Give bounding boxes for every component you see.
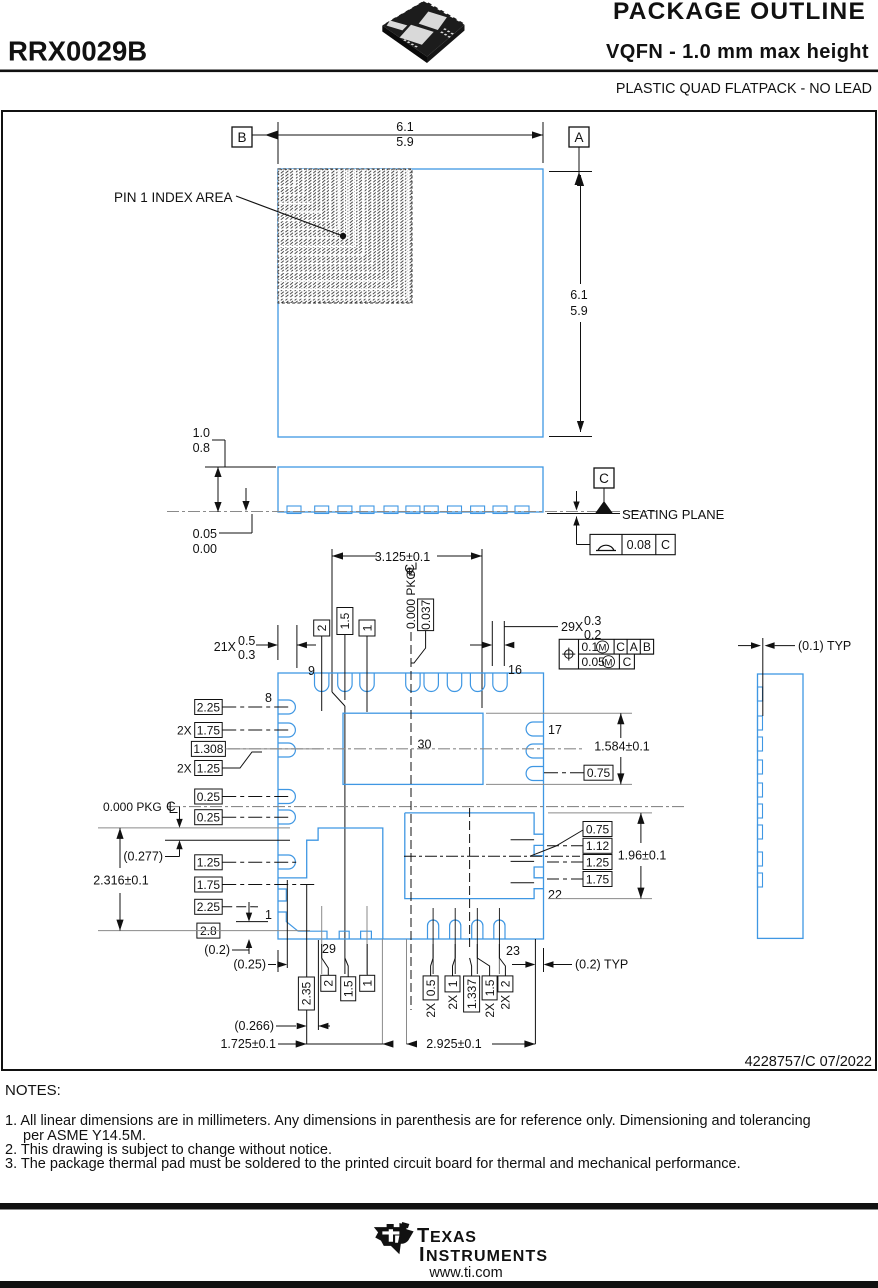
svg-text:1.25: 1.25 bbox=[586, 855, 610, 869]
header horizontal rule bbox=[0, 70, 878, 73]
svg-text:6.1: 6.1 bbox=[570, 288, 587, 302]
side view centerline bbox=[167, 511, 657, 513]
left box leader lines bbox=[222, 706, 290, 708]
datum C label and seating plane bbox=[594, 468, 614, 488]
svg-text:2X: 2X bbox=[177, 723, 192, 737]
svg-text:1.96±0.1: 1.96±0.1 bbox=[618, 849, 667, 863]
svg-text:SEATING PLANE: SEATING PLANE bbox=[622, 507, 725, 522]
svg-text:A: A bbox=[574, 130, 583, 145]
drawing sheet border bbox=[2, 111, 876, 1070]
datum B label bbox=[232, 127, 252, 147]
svg-text:1.25: 1.25 bbox=[197, 856, 221, 870]
svg-text:RRX0029B: RRX0029B bbox=[8, 36, 147, 67]
svg-text:I: I bbox=[419, 1244, 425, 1266]
svg-text:0.00: 0.00 bbox=[193, 542, 217, 556]
svg-text:16: 16 bbox=[508, 663, 522, 677]
svg-text:2: 2 bbox=[315, 624, 329, 631]
svg-text:2.35: 2.35 bbox=[300, 981, 314, 1005]
svg-text:(0.2): (0.2) bbox=[204, 943, 230, 957]
dimension (0.277) bbox=[165, 839, 290, 841]
svg-text:1.75: 1.75 bbox=[197, 723, 221, 737]
svg-text:8: 8 bbox=[265, 691, 272, 705]
svg-text:1: 1 bbox=[446, 980, 460, 987]
0.037 boxed dimension rotated bbox=[418, 599, 434, 631]
svg-text:0.75: 0.75 bbox=[586, 822, 610, 836]
0.75 box right upper bbox=[584, 765, 613, 780]
pin 1 tab with chamfer bbox=[278, 912, 298, 931]
horizontal package centerline 0.000 PKG bbox=[168, 806, 685, 808]
svg-text:0.5: 0.5 bbox=[424, 979, 438, 996]
left dimension boxes bbox=[195, 700, 223, 715]
top edge pins 9-16 bbox=[315, 673, 329, 692]
svg-text:C: C bbox=[661, 538, 670, 552]
dimension 29X 0.3/0.2 top right bbox=[491, 621, 493, 666]
svg-text:2.25: 2.25 bbox=[197, 900, 221, 914]
svg-text:0.08: 0.08 bbox=[627, 538, 651, 552]
position tolerance frame bbox=[559, 639, 653, 669]
right edge pins 17-19 bbox=[526, 722, 543, 736]
svg-text:(0.277): (0.277) bbox=[123, 850, 163, 864]
svg-text:1.308: 1.308 bbox=[193, 742, 223, 756]
right height dimension 6.1/5.9 bbox=[578, 147, 580, 176]
dimension 2.925 +/-0.1 bbox=[407, 1043, 536, 1045]
svg-text:2X: 2X bbox=[424, 1003, 438, 1018]
svg-text:(0.266): (0.266) bbox=[234, 1019, 274, 1033]
svg-text:1: 1 bbox=[265, 908, 272, 922]
svg-text:0.25: 0.25 bbox=[197, 811, 221, 825]
footer separator bar bbox=[0, 1203, 878, 1210]
svg-text:4228757/C 07/2022: 4228757/C 07/2022 bbox=[745, 1054, 872, 1070]
pad 22 centerline vertical bbox=[469, 808, 471, 950]
isometric QFN chip icon bbox=[382, 1, 464, 63]
thermal pad 30 bbox=[343, 713, 483, 784]
dimension (0.2) TYP bottom right bbox=[543, 948, 545, 972]
svg-text:0.3: 0.3 bbox=[238, 648, 255, 662]
svg-text:0.8: 0.8 bbox=[193, 441, 210, 455]
svg-text:1: 1 bbox=[360, 624, 374, 631]
svg-text:0.75: 0.75 bbox=[587, 766, 611, 780]
svg-text:EXAS: EXAS bbox=[430, 1229, 477, 1246]
3.125 extension lines bbox=[331, 549, 333, 692]
dimension 1.96 +/-0.1 right of pad 22 bbox=[548, 812, 652, 814]
svg-text:2.25: 2.25 bbox=[197, 700, 221, 714]
0.08 C flatness tolerance frame bbox=[576, 491, 578, 509]
svg-text:2X: 2X bbox=[499, 995, 513, 1010]
svg-text:1.12: 1.12 bbox=[586, 839, 610, 853]
bottom edge pins 23-26 bbox=[428, 920, 439, 939]
svg-text:1.25: 1.25 bbox=[197, 761, 221, 775]
vertical package centerline dashed bbox=[410, 632, 412, 1010]
svg-text:M: M bbox=[599, 643, 607, 654]
side view package body bbox=[278, 467, 543, 512]
svg-text:29: 29 bbox=[322, 942, 336, 956]
svg-text:1.5: 1.5 bbox=[483, 979, 497, 996]
svg-text:0.5: 0.5 bbox=[238, 634, 255, 648]
svg-text:5.9: 5.9 bbox=[396, 135, 413, 149]
bottom rotated dimension boxes right group bbox=[423, 976, 438, 1000]
svg-text:0.000 PKG: 0.000 PKG bbox=[404, 570, 418, 629]
thermal pad 29 lower-left bbox=[278, 828, 383, 939]
svg-text:1.725±0.1: 1.725±0.1 bbox=[220, 1037, 276, 1051]
thermal pad 22 lower-right bbox=[405, 813, 544, 899]
svg-text:1.0: 1.0 bbox=[193, 426, 210, 440]
svg-text:±0.1: ±0.1 bbox=[406, 550, 430, 564]
svg-text:17: 17 bbox=[548, 723, 562, 737]
datum A label bbox=[569, 127, 589, 147]
svg-text:PLASTIC QUAD FLATPACK - NO LEA: PLASTIC QUAD FLATPACK - NO LEAD bbox=[616, 81, 872, 97]
svg-text:PIN 1 INDEX AREA: PIN 1 INDEX AREA bbox=[114, 190, 233, 205]
bottom view package body bbox=[278, 673, 544, 939]
top view package body bbox=[278, 169, 543, 437]
svg-text:30: 30 bbox=[418, 738, 432, 752]
svg-text:21X: 21X bbox=[214, 640, 237, 654]
svg-text:1.5: 1.5 bbox=[338, 612, 352, 629]
svg-text:5.9: 5.9 bbox=[570, 304, 587, 318]
pad 22 leader extensions bbox=[511, 839, 534, 841]
dimension (0.1) TYP bbox=[762, 638, 764, 716]
svg-text:2.925±0.1: 2.925±0.1 bbox=[426, 1037, 482, 1051]
svg-text:9: 9 bbox=[308, 664, 315, 678]
svg-text:0.05: 0.05 bbox=[193, 527, 217, 541]
svg-text:23: 23 bbox=[506, 944, 520, 958]
left edge square tab pin 2 bbox=[278, 889, 286, 901]
right side view body bbox=[758, 674, 804, 938]
svg-text:B: B bbox=[237, 130, 246, 145]
svg-text:0.037: 0.037 bbox=[419, 599, 433, 629]
svg-text:C: C bbox=[166, 799, 176, 814]
svg-text:2: 2 bbox=[499, 980, 513, 987]
svg-text:VQFN - 1.0 mm max height: VQFN - 1.0 mm max height bbox=[606, 41, 869, 63]
left edge pins bbox=[278, 700, 295, 714]
svg-text:1. All linear dimensions are i: 1. All linear dimensions are in millimet… bbox=[5, 1113, 811, 1129]
svg-text:0.000 PKG: 0.000 PKG bbox=[103, 800, 162, 814]
svg-text:(0.2) TYP: (0.2) TYP bbox=[575, 958, 628, 972]
dimension (0.2) pin1 corner bbox=[236, 921, 268, 923]
svg-text:NSTRUMENTS: NSTRUMENTS bbox=[426, 1248, 548, 1265]
dimension 3.125 +/-0.1 bbox=[332, 555, 482, 557]
svg-text:0.25: 0.25 bbox=[197, 790, 221, 804]
svg-text:B: B bbox=[643, 640, 651, 654]
svg-text:NOTES:: NOTES: bbox=[5, 1082, 61, 1099]
top dimension boxes 2 / 1.5 / 1 bbox=[314, 620, 330, 636]
svg-text:1.75: 1.75 bbox=[197, 878, 221, 892]
svg-text:22: 22 bbox=[548, 888, 562, 902]
svg-text:2: 2 bbox=[322, 980, 336, 987]
pad 22 centerline horizontal bbox=[404, 855, 580, 857]
top width dimension 6.1/5.9 bbox=[252, 134, 543, 136]
svg-text:0.1: 0.1 bbox=[582, 640, 599, 654]
PKG centerline mini symbol bbox=[406, 566, 415, 576]
svg-text:1.75: 1.75 bbox=[586, 872, 610, 886]
svg-text:6.1: 6.1 bbox=[396, 120, 413, 134]
svg-text:0.3: 0.3 bbox=[584, 614, 601, 628]
dimension 1.584 +/-0.1 right of pad 30 bbox=[486, 712, 632, 714]
svg-text:3.125: 3.125 bbox=[375, 550, 406, 564]
bottom rotated dimension boxes left group bbox=[298, 977, 314, 1010]
svg-text:2X: 2X bbox=[483, 1003, 497, 1018]
svg-text:1.337: 1.337 bbox=[465, 979, 479, 1009]
svg-text:2X: 2X bbox=[446, 995, 460, 1010]
svg-text:A: A bbox=[630, 640, 638, 654]
svg-text:(0.25): (0.25) bbox=[233, 958, 266, 972]
dimension 2.316 +/-0.1 left bbox=[98, 827, 290, 829]
svg-text:PACKAGE OUTLINE: PACKAGE OUTLINE bbox=[613, 0, 866, 25]
svg-text:(0.1) TYP: (0.1) TYP bbox=[798, 639, 851, 653]
svg-text:1: 1 bbox=[361, 980, 375, 987]
pad 30 centerline bbox=[228, 748, 582, 750]
svg-text:C: C bbox=[623, 655, 632, 669]
bottom extension lines bbox=[286, 880, 288, 968]
svg-text:C: C bbox=[599, 471, 609, 486]
svg-text:0.05: 0.05 bbox=[582, 655, 606, 669]
pin 1 index hatched area bbox=[278, 169, 412, 303]
TI logo mark bbox=[374, 1222, 414, 1254]
svg-text:2X: 2X bbox=[177, 761, 192, 775]
bottom page bar bbox=[0, 1281, 878, 1288]
right dimension boxes 0.75/1.12/1.25/1.75 bbox=[583, 822, 612, 837]
right side view terminals bbox=[758, 687, 763, 701]
side view bottom terminals bbox=[287, 506, 301, 514]
svg-text:1.584±0.1: 1.584±0.1 bbox=[594, 740, 650, 754]
svg-text:C: C bbox=[616, 640, 625, 654]
svg-text:2.316±0.1: 2.316±0.1 bbox=[93, 874, 149, 888]
svg-text:3. The package thermal pad mus: 3. The package thermal pad must be solde… bbox=[5, 1156, 741, 1172]
svg-text:www.ti.com: www.ti.com bbox=[428, 1265, 502, 1281]
svg-text:29X: 29X bbox=[561, 620, 584, 634]
svg-text:M: M bbox=[605, 657, 613, 668]
svg-text:1.5: 1.5 bbox=[342, 980, 356, 997]
